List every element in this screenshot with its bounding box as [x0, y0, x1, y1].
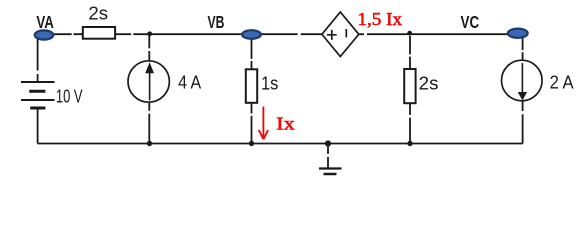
resistor 1s (vertical) — [246, 69, 279, 103]
wire: right resistor 2s to bottom rail — [409, 104, 411, 144]
ground — [319, 146, 342, 174]
junction bottom 1s — [249, 141, 254, 146]
wire: VB to dependent source — [261, 33, 322, 35]
node VB — [208, 12, 261, 39]
svg-text:1,5 Ix: 1,5 Ix — [357, 9, 402, 29]
svg-text:VC: VC — [461, 12, 480, 32]
node VA — [35, 12, 55, 40]
dependent source 1.5Ix (diamond) — [322, 12, 359, 57]
wire: resistor 2s to node dot — [115, 33, 149, 35]
wire: top dot down to 4A source — [148, 36, 150, 61]
svg-text:1s: 1s — [261, 72, 278, 93]
svg-text:2 A: 2 A — [550, 72, 575, 93]
wire: 4A source bottom to bottom rail — [148, 102, 150, 143]
svg-text:VB: VB — [208, 12, 225, 32]
junction top-right (2s branch) — [407, 31, 412, 36]
junction bottom 2s — [407, 141, 412, 146]
wire: VC corner down to 2A source — [522, 38, 524, 61]
wire: left rail VA down to battery — [37, 38, 39, 82]
svg-text:2s: 2s — [419, 72, 439, 93]
current source 2A — [502, 60, 575, 101]
junction top-left (4A branch) — [147, 31, 152, 36]
svg-text:10 V: 10 V — [56, 86, 83, 107]
current arrow Ix (red) — [259, 107, 268, 140]
wire: 2A source bottom to bottom rail — [522, 101, 524, 144]
junction bottom 4A — [147, 141, 152, 146]
junction bottom ground — [325, 140, 331, 146]
voltage source 10V (battery) — [21, 82, 83, 108]
resistor 2s (top horizontal) — [83, 3, 115, 39]
svg-text:VA: VA — [36, 12, 54, 32]
wire: right dot down to resistor 2s — [409, 36, 411, 69]
wire bottom rail — [38, 143, 523, 145]
svg-text:4 A: 4 A — [178, 71, 202, 92]
svg-text:2s: 2s — [88, 3, 108, 24]
wire: node dot to VB — [149, 33, 243, 35]
node VC — [461, 12, 528, 38]
wire: node dot to VC — [411, 33, 518, 35]
wire: resistor 1s to bottom rail — [251, 103, 253, 144]
wire: VB down to resistor 1s — [251, 39, 253, 70]
wire: dependent source to node dot — [359, 33, 410, 35]
svg-text:Ix: Ix — [276, 114, 295, 134]
current source 4A — [128, 61, 202, 102]
wire top: VA to resistor 2s — [53, 33, 83, 35]
resistor 2s (right vertical) — [404, 69, 438, 103]
wire: battery bottom to bottom rail — [37, 109, 39, 144]
